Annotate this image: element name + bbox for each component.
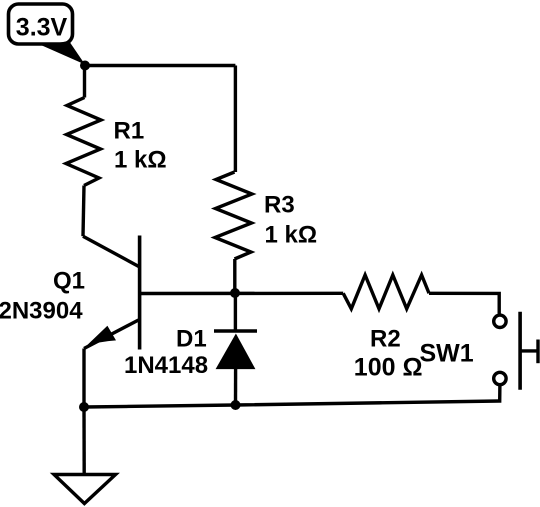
- svg-text:R2: R2: [370, 326, 401, 353]
- resistor R3: [215, 172, 252, 259]
- diode D1 anode triangle: [216, 334, 256, 370]
- svg-text:D1: D1: [176, 326, 207, 353]
- supply callout tail: [42, 41, 85, 65]
- wire: R3 top lead: [234, 66, 237, 173]
- svg-text:Q1: Q1: [53, 268, 85, 295]
- svg-text:3.3V: 3.3V: [16, 13, 68, 41]
- svg-text:1 kΩ: 1 kΩ: [265, 222, 318, 249]
- svg-text:SW1: SW1: [420, 340, 474, 368]
- transistor Q1 collector diagonal: [83, 236, 139, 266]
- svg-text:1N4148: 1N4148: [124, 352, 208, 379]
- wire: ground rail: [84, 401, 500, 407]
- wire: R2 to SW1 top contact: [429, 293, 499, 314]
- ground symbol: [54, 475, 116, 504]
- wire: node A to R3 top corner: [85, 64, 235, 67]
- wire: R1 bottom to Q1 collector: [83, 186, 84, 237]
- transistor Q1 emitter diagonal: [84, 320, 139, 349]
- wire: Q1 emitter to ground rail: [82, 349, 85, 408]
- wire: Q1 base lead through node B to R2: [140, 292, 344, 296]
- switch SW1 actuator bar: [518, 312, 522, 390]
- switch SW1 top contact circle: [494, 315, 506, 327]
- switch SW1 plunger: [520, 349, 538, 352]
- switch SW1 plunger cap: [536, 340, 539, 364]
- svg-text:R3: R3: [264, 192, 295, 219]
- svg-text:100 Ω: 100 Ω: [354, 354, 423, 382]
- resistor R1: [66, 98, 101, 186]
- node B: base/diode junction dot: [230, 288, 240, 298]
- wire: node A down to R1 top: [83, 66, 86, 98]
- diode D1 top lead (cathode to node B): [234, 293, 237, 331]
- diode D1 bottom lead: [234, 369, 238, 405]
- node A: 3.3V net junction dot: [80, 61, 90, 71]
- svg-text:1 kΩ: 1 kΩ: [114, 147, 167, 174]
- switch SW1 bottom contact circle: [494, 372, 506, 384]
- junction dot: rail at D1: [231, 400, 241, 410]
- junction dot: rail at emitter: [79, 402, 89, 412]
- supply label 3.3V box: [9, 4, 73, 44]
- wire: rail to ground symbol: [82, 407, 86, 475]
- transistor Q1 base bar: [138, 236, 142, 350]
- svg-text:R1: R1: [114, 118, 145, 145]
- resistor R2: [343, 275, 429, 309]
- diode D1 cathode bar: [214, 329, 257, 332]
- wire: R3 bottom to node B: [233, 259, 236, 293]
- svg-text:2N3904: 2N3904: [0, 298, 83, 325]
- wire: SW1 bottom contact to ground rail: [498, 385, 502, 401]
- transistor Q1 emitter arrow: [87, 326, 117, 346]
